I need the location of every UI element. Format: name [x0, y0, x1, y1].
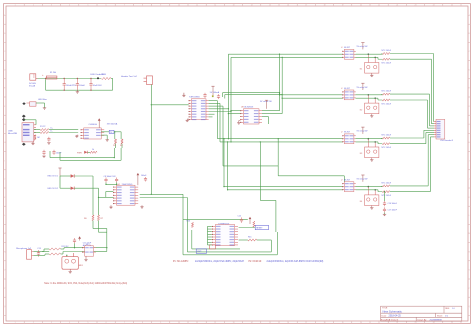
svg-text:2: 2 [33, 4, 34, 6]
ground C7 [47, 142, 50, 144]
svg-text:5V relay 5W: 5V relay 5W [357, 46, 368, 48]
svg-text:22: 22 [396, 322, 398, 324]
relay pins K3 [367, 139, 369, 147]
wire U4 right outputs to MCU box [140, 193, 183, 195]
capacitor C14 mic top [74, 238, 76, 240]
svg-text:10uF/16V: 10uF/16V [93, 85, 103, 87]
ground U2 left [77, 134, 78, 136]
svg-text:12: 12 [214, 322, 216, 324]
resistor C lower [356, 141, 379, 143]
wire main 5V rail [38, 78, 102, 80]
wire mic bus vertical [106, 229, 108, 252]
resistor R15 horizontal [248, 239, 257, 241]
ground relay K2 [371, 114, 373, 116]
capacitor C9 above U3 [204, 93, 206, 95]
svg-text:C16 100nF: C16 100nF [388, 203, 398, 205]
svg-text:P1: NC-12MHz:: P1: NC-12MHz: [173, 261, 189, 263]
transistor MK1 mic body [62, 257, 79, 270]
wire diode net 1 down [92, 176, 94, 215]
wire net vertical A [113, 148, 115, 158]
wire channel outputs to connector [390, 53, 434, 55]
svg-text:15: 15 [269, 4, 271, 6]
svg-text:2x22pF/330Ohm, 22pF/33.3uH-8MH: 2x22pF/330Ohm, 22pF/33.3uH-8MHz NC47uF/3… [267, 261, 324, 263]
svg-text:R3: R3 [113, 145, 115, 147]
power 5V A [361, 42, 364, 44]
svg-text:EasyEDA V4.12.5: EasyEDA V4.12.5 [381, 319, 399, 322]
wire U4 left pins link [106, 191, 114, 193]
svg-text:5: 5 [87, 322, 88, 324]
svg-text:NTC 10D-9: NTC 10D-9 [382, 103, 392, 105]
svg-text:1M: 1M [37, 137, 40, 139]
wire A-to-C vertical 2 [230, 57, 232, 141]
svg-text:2: 2 [33, 322, 34, 324]
capacitor C6 below [53, 150, 55, 152]
power arrow 3V3 [98, 118, 101, 120]
ground U4 left [110, 205, 112, 207]
svg-text:7: 7 [124, 4, 125, 6]
svg-text:New Schematic: New Schematic [383, 309, 403, 313]
svg-text:1: 1 [15, 4, 16, 6]
svg-text:R4: R4 [120, 145, 122, 147]
capacitor C3 [90, 79, 92, 84]
wire usb top loop [24, 119, 36, 121]
svg-text:11: 11 [196, 4, 198, 6]
svg-text:6: 6 [106, 322, 107, 324]
svg-text:17: 17 [305, 4, 307, 6]
relay K3 [365, 147, 379, 158]
ground U8 [239, 120, 241, 122]
svg-text:17: 17 [305, 322, 307, 324]
svg-text:EL817: EL817 [344, 47, 351, 49]
resistor R12 [49, 253, 60, 255]
capacitor C12 above U4 right [145, 177, 147, 179]
wire U3 to channel B rail [222, 93, 224, 97]
resistor R1 on D+ [34, 129, 41, 131]
no-connect flag [212, 95, 214, 97]
svg-text:8: 8 [142, 322, 143, 324]
svg-text:NTC 10D-9: NTC 10D-9 [382, 195, 392, 197]
svg-text:EL817: EL817 [344, 88, 351, 90]
svg-text:13: 13 [233, 322, 235, 324]
svg-text:NTC 10D-9: NTC 10D-9 [382, 91, 392, 93]
gnd flag near header [183, 93, 185, 96]
svg-text:19: 19 [342, 4, 344, 6]
resistor R2 on D- [34, 132, 41, 134]
svg-text:SW2: SW2 [197, 251, 201, 253]
svg-text:L: L [469, 215, 470, 217]
svg-text:23: 23 [415, 4, 417, 6]
capacitor C11 above U4 [116, 178, 118, 180]
svg-text:R13: R13 [187, 220, 190, 222]
fuse F1 [46, 76, 57, 79]
black junction dot [97, 77, 99, 79]
svg-text:14: 14 [251, 322, 253, 324]
title block [381, 306, 462, 321]
svg-text:3: 3 [51, 322, 52, 324]
crystal Y1 [210, 245, 216, 249]
wire MCU surround box inner 2 [191, 230, 193, 249]
relay K2 [365, 103, 379, 114]
relay K4 [365, 195, 379, 206]
svg-text:21: 21 [378, 4, 380, 6]
svg-text:100nF: 100nF [56, 152, 62, 154]
svg-text:5V 100mA: 5V 100mA [210, 91, 220, 94]
resistor R8 1M vertical [34, 135, 36, 140]
wire U6 to mic bus 1 [94, 247, 107, 249]
ground relay K3 [371, 158, 373, 160]
svg-text:1k: 1k [92, 149, 94, 151]
svg-text:74HC595D: 74HC595D [189, 96, 200, 98]
svg-text:C17 100nF: C17 100nF [388, 210, 398, 212]
ground relay K4 [371, 206, 373, 208]
svg-text:25: 25 [451, 322, 453, 324]
svg-text:B: B [4, 33, 5, 35]
wire U8 outputs [262, 110, 280, 112]
svg-text:F: F [4, 106, 5, 108]
capacitor bank under channel D [384, 192, 386, 201]
svg-text:3V3 500mA: 3V3 500mA [107, 122, 118, 125]
wire R7 down [98, 221, 100, 233]
svg-text:18: 18 [324, 322, 326, 324]
svg-text:100nF: 100nF [141, 175, 147, 177]
wire R6 down [92, 221, 94, 229]
wire MCU surround box inner 1 [186, 226, 188, 252]
ground U6 [85, 256, 87, 259]
wire C pair junctions [278, 138, 279, 139]
svg-text:ESD 5V D1: ESD 5V D1 [48, 176, 59, 178]
svg-text:F: F [469, 106, 470, 108]
junction dots on 5V rail [45, 78, 46, 79]
svg-text:R1 22: R1 22 [40, 126, 46, 128]
svg-text:C8 100nF 16V: C8 100nF 16V [104, 176, 117, 178]
wire bottom return rail [45, 79, 47, 90]
resistor A lower [356, 56, 379, 58]
capacitor C8 above U4 [105, 178, 107, 180]
svg-text:Date:: Date: [382, 315, 388, 318]
relay pins K2 [367, 95, 369, 103]
wire pair channel D [224, 186, 343, 188]
ground relay K1 [371, 73, 373, 75]
wire U2 gnd down [101, 134, 107, 136]
resistor R13 vertical [191, 222, 193, 227]
svg-text:5V relay 5W: 5V relay 5W [357, 87, 368, 89]
wire U3 ladder [209, 100, 218, 102]
svg-text:10: 10 [178, 322, 180, 324]
svg-text:12: 12 [214, 4, 216, 6]
wire diode net 2 down [98, 188, 100, 215]
connector J1 DC jack [30, 74, 36, 80]
svg-text:9: 9 [160, 4, 161, 6]
svg-text:20: 20 [360, 4, 362, 6]
wire A-to-B vertical 1 [279, 54, 281, 110]
power flag mic [78, 236, 81, 238]
wire pair channel B [280, 94, 343, 96]
svg-text:5V relay 5W: 5V relay 5W [357, 179, 368, 181]
wire aux row to channel D enable [223, 165, 278, 167]
wire lanes C pair down to D pair [223, 139, 225, 187]
resistor R14 vertical [253, 221, 255, 227]
svg-text:4: 4 [69, 4, 70, 6]
power 5V B [361, 82, 364, 84]
wire U2 TX out with net flag [101, 131, 109, 133]
power 5V D [361, 174, 364, 176]
switch SW2 box [196, 249, 206, 253]
resistor D lower [356, 189, 379, 191]
svg-text:15: 15 [269, 322, 271, 324]
svg-text:20: 20 [360, 322, 362, 324]
svg-text:NTC 10D-9: NTC 10D-9 [382, 147, 392, 149]
ground for input section [76, 90, 78, 91]
svg-text:2x22pF/330Ohm, 22pF/47uF-4MHz,: 2x22pF/330Ohm, 22pF/47uF-4MHz, 22pF/33uH [195, 261, 244, 263]
svg-text:REV:: REV: [445, 308, 450, 310]
svg-text:14: 14 [251, 4, 253, 6]
svg-text:R11 2k2: R11 2k2 [62, 246, 69, 248]
svg-text:24: 24 [433, 4, 435, 6]
svg-text:CN1 Header-8: CN1 Header-8 [440, 140, 454, 142]
switch SW1 reset box [255, 225, 268, 229]
svg-text:EL817: EL817 [344, 180, 351, 182]
capacitor C15 top right [241, 217, 243, 219]
resistor R11 [49, 248, 60, 250]
svg-text:19: 19 [342, 322, 344, 324]
svg-text:23: 23 [415, 322, 417, 324]
power VCC above U3 [211, 85, 214, 87]
svg-text:22: 22 [396, 4, 398, 6]
svg-text:24: 24 [433, 322, 435, 324]
svg-text:7: 7 [124, 322, 125, 324]
power above U4 [137, 173, 140, 175]
svg-text:CH340G: CH340G [89, 124, 98, 126]
resistor R7 vertical [97, 215, 99, 221]
wire A-to-C vertical 1 [227, 54, 229, 139]
svg-text:21: 21 [378, 322, 380, 324]
svg-text:10: 10 [178, 4, 180, 6]
svg-text:E: E [469, 88, 470, 90]
resistor R4 vertical on net [120, 132, 122, 139]
svg-text:C13: C13 [37, 248, 40, 250]
wire MCU left stubs [208, 225, 212, 227]
svg-text:13: 13 [233, 4, 235, 6]
wire U6 to mic bus 2 [94, 251, 107, 253]
junction dots on return rail [63, 90, 64, 91]
relay K1 [365, 63, 379, 74]
svg-text:3: 3 [51, 4, 52, 6]
power flag diode cluster [58, 167, 61, 169]
svg-text:PWR: PWR [77, 153, 82, 155]
svg-text:LED Blue: LED Blue [38, 99, 48, 101]
svg-text:Sheet:: Sheet: [437, 315, 443, 318]
wire pair channel A [228, 53, 342, 55]
resistor A upper [356, 53, 383, 55]
resistor D upper [356, 186, 383, 188]
svg-text:Header Test 1x2: Header Test 1x2 [121, 75, 138, 78]
wire cap link [105, 183, 107, 185]
ground U4 right [141, 205, 143, 207]
wire mic upper [34, 251, 50, 253]
wire 5V rail out [111, 78, 113, 80]
svg-text:8: 8 [142, 4, 143, 6]
svg-text:100nF: 100nF [79, 85, 86, 87]
svg-text:9: 9 [160, 322, 161, 324]
svg-text:Note: In the 4000mAh, 9V2, 9V4: Note: In the 4000mAh, 9V2, 9V4, Note(3v3… [44, 282, 127, 285]
wire U4 left to diode net [99, 196, 106, 198]
svg-text:5: 5 [87, 4, 88, 6]
svg-text:16: 16 [287, 4, 289, 6]
relay pins K4 [367, 187, 369, 195]
capacitor C10 above U3 [218, 94, 220, 96]
capacitor C2 [76, 79, 78, 84]
wire header branch to U3 [151, 104, 188, 106]
usb shield diamonds [22, 115, 26, 118]
resistor B upper [356, 94, 383, 96]
svg-text:1.0: 1.0 [452, 308, 455, 310]
svg-text:4: 4 [69, 322, 70, 324]
ground U3 [187, 118, 189, 120]
svg-text:ESD 5V D2: ESD 5V D2 [48, 188, 59, 190]
svg-text:L: L [4, 215, 5, 217]
junction [114, 157, 115, 158]
usb ground [32, 142, 34, 143]
svg-text:R15: R15 [248, 237, 251, 239]
resistor R6 vertical [92, 215, 94, 221]
svg-text:6: 6 [106, 4, 107, 6]
svg-text:ULN2003: ULN2003 [244, 106, 254, 108]
wire pair channel C [218, 138, 343, 140]
ground mic [69, 269, 71, 271]
svg-text:18: 18 [324, 4, 326, 6]
svg-text:2018888888: 2018888888 [430, 320, 443, 322]
svg-text:16: 16 [287, 322, 289, 324]
capacitor C5 below [43, 150, 45, 152]
svg-text:1: 1 [15, 322, 16, 324]
svg-text:C15: C15 [238, 215, 241, 217]
wire C to MCU vertical [259, 142, 261, 201]
relay pins K1 [367, 54, 369, 62]
ground LED [43, 107, 46, 109]
svg-text:5V relay 5W: 5V relay 5W [357, 131, 368, 133]
wire MCU surround box outer [183, 218, 248, 220]
connector CN1 header 8 [436, 119, 445, 139]
svg-text:100uF/25V: 100uF/25V [66, 85, 77, 87]
svg-text:F1 2A: F1 2A [50, 71, 56, 74]
svg-text:NTC 10D-9: NTC 10D-9 [382, 135, 392, 137]
wire U8 input stubs [231, 110, 240, 112]
svg-text:EL817: EL817 [344, 132, 351, 134]
wire A-to-B vertical 2 [281, 57, 283, 113]
wire net vertical B [120, 148, 122, 160]
power MCU [249, 217, 252, 219]
capacitor C13 mic [38, 250, 40, 253]
svg-text:Drawn By:: Drawn By: [418, 320, 428, 322]
wire from header down [150, 85, 152, 195]
svg-text:5V-2A: 5V-2A [29, 84, 35, 87]
svg-text:RESET: RESET [256, 228, 263, 230]
svg-text:NTC 10D-9: NTC 10D-9 [382, 50, 392, 52]
svg-text:B: B [469, 33, 470, 35]
capacitor C7 [48, 137, 50, 139]
capacitor C1 [63, 79, 65, 84]
svg-text:E: E [4, 88, 5, 90]
power 5V C [361, 126, 364, 128]
diode D5 SS14 [102, 77, 112, 79]
svg-text:NTC 10D-9: NTC 10D-9 [382, 63, 392, 65]
svg-text:P2: NC2F10:: P2: NC2F10: [249, 261, 263, 263]
svg-text:NTC 10D-9: NTC 10D-9 [382, 182, 392, 184]
svg-text:P: P [469, 288, 470, 290]
svg-text:2018-04-25: 2018-04-25 [389, 315, 402, 318]
svg-text:MicroUSB: MicroUSB [8, 133, 18, 135]
resistor C upper [356, 138, 383, 140]
resistor R3 vertical on net [114, 132, 116, 139]
svg-text:25: 25 [451, 4, 453, 6]
resistor B lower [356, 97, 379, 99]
svg-text:11: 11 [196, 322, 198, 324]
svg-text:P: P [4, 288, 5, 290]
